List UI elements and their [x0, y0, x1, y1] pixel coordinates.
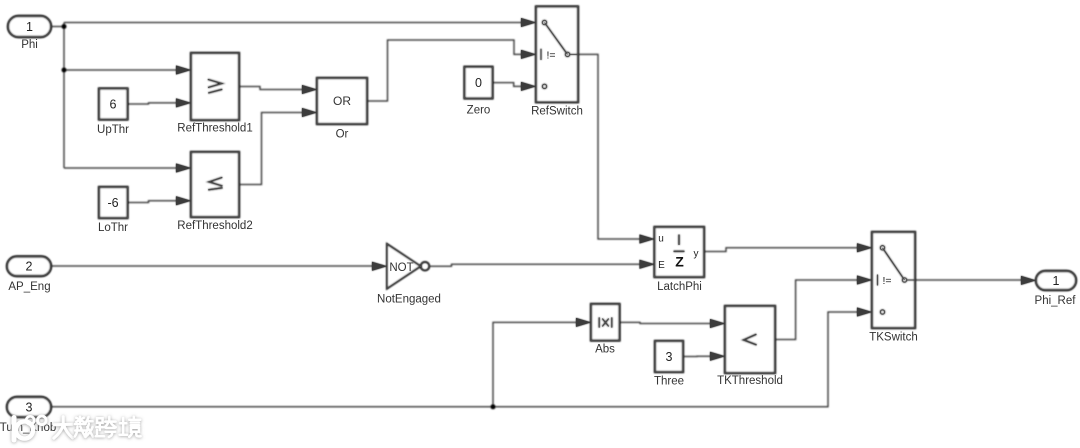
symbol abs bars (overlay): [599, 317, 612, 327]
arrowhead TKThreshold in1 (overlay): [710, 319, 725, 328]
symbol LE RefThreshold2: [208, 177, 222, 189]
block Zero (overlay): [465, 67, 493, 99]
arrowhead TKSwitch in3 (overlay): [857, 308, 872, 317]
svg-text:Abs: Abs: [595, 344, 615, 356]
TKSwitch port1 circle: [880, 246, 884, 250]
TKSwitch port3 circle (overlay): [880, 310, 884, 314]
arrowhead TKSwitch in2: [857, 276, 872, 285]
svg-text:Or: Or: [336, 129, 349, 141]
TKSwitch out circle: [902, 278, 906, 282]
svg-text:0: 0: [475, 76, 482, 90]
arrowhead TKThreshold in2: [710, 352, 725, 361]
TKSwitch port1 circle (overlay): [880, 246, 884, 250]
RefSwitch port3 circle (overlay): [542, 84, 546, 88]
svg-text:OR: OR: [333, 94, 351, 108]
arrowhead RefThreshold1 in1 (overlay): [176, 66, 191, 75]
wire branch to Abs: [493, 322, 577, 406]
svg-text:1: 1: [1053, 274, 1060, 288]
symbol LT TKThreshold: [744, 334, 757, 345]
port Phi_Ref (overlay): [1036, 271, 1076, 290]
arrowhead RefSwitch in3 (overlay): [521, 82, 536, 91]
block RefSwitch: [536, 7, 578, 103]
symbol LT TKThreshold (overlay): [744, 334, 757, 345]
svg-text:!=: !=: [547, 50, 556, 62]
wire Phi to RefSwitch in1: [64, 22, 522, 24]
wire Abs to TKThreshold in1: [620, 322, 712, 323]
wire NotEngaged to LatchPhi E: [429, 264, 640, 266]
block RefThreshold1: [191, 53, 239, 120]
arrowhead Abs in: [576, 318, 591, 327]
svg-text:u: u: [658, 234, 664, 245]
wire RefThreshold1 to Or in1: [239, 87, 303, 90]
svg-text:LatchPhi: LatchPhi: [657, 281, 702, 293]
port Turn_Knob (overlay): [7, 397, 51, 417]
RefSwitch out circle: [565, 52, 569, 56]
TKSwitch bar: [877, 275, 879, 286]
wire TKSwitch to Phi_Ref: [915, 279, 1022, 281]
symbol one over z (overlay): [674, 235, 685, 252]
arrowhead RefThreshold1 in2 (overlay): [176, 98, 191, 107]
svg-text:y: y: [694, 249, 699, 260]
watermark char Da: [54, 417, 73, 438]
RefSwitch port3 circle: [542, 84, 546, 88]
port Phi (overlay): [8, 16, 51, 37]
arrowhead Or in1 (overlay): [302, 85, 317, 94]
arrowhead TKSwitch in1 (overlay): [857, 243, 872, 252]
TKSwitch bar (overlay): [877, 275, 879, 286]
wire UpThr to RefThreshold1 in2: [128, 103, 178, 104]
block Three (overlay): [655, 341, 683, 372]
arrowhead RefSwitch in2 (overlay): [521, 50, 536, 59]
wire LoThr to RefThreshold2 in2: [128, 201, 178, 203]
svg-text:AP_Eng: AP_Eng: [8, 281, 50, 293]
block RefThreshold2 (overlay): [191, 152, 239, 217]
TKSwitch out circle (overlay): [902, 278, 906, 282]
svg-text:-6: -6: [107, 196, 118, 210]
block LatchPhi (overlay): [655, 227, 705, 277]
arrowhead LatchPhi E (overlay): [640, 260, 655, 269]
wire Zero to RefSwitch in3: [493, 83, 523, 87]
block Abs (overlay): [591, 304, 620, 341]
svg-text:NOT: NOT: [389, 262, 413, 274]
wire Turn_Knob to TKSwitch in3: [51, 312, 858, 407]
watermark char Shu: [75, 417, 93, 437]
port Phi: [8, 16, 51, 37]
arrowhead TKSwitch in3: [857, 308, 872, 317]
block LatchPhi: [655, 227, 705, 277]
arrowhead TKThreshold in1: [710, 319, 725, 328]
arrowhead LatchPhi E: [640, 260, 655, 269]
wire junction vertical: [63, 23, 65, 169]
gate NotEngaged triangle (overlay): [387, 244, 421, 289]
wire Or to RefSwitch in2: [367, 40, 522, 101]
port Turn_Knob: [7, 397, 51, 417]
svg-text:1: 1: [26, 20, 33, 34]
arrowhead Or in2: [302, 108, 317, 117]
block TKSwitch (overlay): [872, 232, 915, 328]
wire Three to TKThreshold in2: [683, 355, 711, 357]
TKSwitch out stub: [907, 279, 915, 281]
svg-text:RefSwitch: RefSwitch: [531, 106, 583, 118]
arrowhead Or in1: [302, 85, 317, 94]
arrowhead RefThreshold2 in1: [176, 164, 191, 173]
block UpThr (overlay): [99, 89, 128, 120]
arrowhead RefThreshold2 in2 (overlay): [176, 196, 191, 205]
gate NotEngaged bubble: [421, 262, 430, 271]
RefSwitch port1 circle: [542, 20, 546, 24]
watermark char Kua: [96, 417, 116, 437]
port AP_Eng (overlay): [7, 257, 51, 277]
symbol LE RefThreshold2 (overlay): [208, 177, 222, 189]
arrowhead LatchPhi u: [640, 235, 655, 244]
block Abs: [591, 304, 620, 341]
block Zero: [465, 67, 493, 99]
TKSwitch port3 circle: [880, 310, 884, 314]
arrowhead Abs in (overlay): [576, 318, 591, 327]
RefSwitch bar: [540, 49, 542, 60]
port Phi_Ref: [1036, 271, 1076, 290]
arrowhead RefThreshold2 in2: [176, 196, 191, 205]
block TKSwitch: [872, 232, 915, 328]
gate NotEngaged bubble (overlay): [421, 262, 430, 271]
arrowhead Or in2 (overlay): [302, 108, 317, 117]
arrowhead Phi_Ref in: [1021, 276, 1036, 285]
arrowhead RefSwitch in2: [521, 50, 536, 59]
svg-text:NotEngaged: NotEngaged: [377, 294, 441, 306]
symbol GE RefThreshold1: [208, 79, 223, 93]
RefSwitch out circle (overlay): [565, 52, 569, 56]
gate NotEngaged triangle: [387, 244, 421, 289]
port AP_Eng: [7, 257, 51, 277]
RefSwitch port1 circle (overlay): [542, 20, 546, 24]
svg-text:3: 3: [26, 401, 33, 415]
symbol abs bars: [599, 317, 612, 327]
arrowhead TKSwitch in1: [857, 243, 872, 252]
block LoThr (overlay): [99, 187, 128, 218]
wire RefSwitch to LatchPhi u: [578, 54, 640, 239]
block Three: [655, 341, 683, 372]
symbol one over z: [674, 235, 685, 252]
wire Phi to RefThreshold1 in1: [64, 69, 177, 71]
svg-text:Z: Z: [675, 253, 684, 269]
RefSwitch diagonal: [545, 23, 568, 55]
arrowhead RefThreshold1 in2: [176, 98, 191, 107]
TKSwitch out stub (overlay): [907, 279, 915, 281]
RefSwitch out stub (overlay): [570, 53, 578, 55]
arrowhead RefSwitch in1 (overlay): [521, 18, 536, 27]
block Or (overlay): [317, 78, 367, 124]
svg-text:Three: Three: [654, 376, 684, 388]
arrowhead RefThreshold2 in1 (overlay): [176, 164, 191, 173]
svg-text:RefThreshold1: RefThreshold1: [177, 123, 252, 135]
wire Phi to RefThreshold2 in1: [64, 167, 177, 169]
wire TKThreshold to TKSwitch in2: [775, 280, 858, 340]
svg-text:TKSwitch: TKSwitch: [869, 332, 918, 344]
arrowhead LatchPhi u (overlay): [640, 235, 655, 244]
svg-text:Zero: Zero: [467, 105, 491, 117]
watermark logo 100: [14, 416, 46, 440]
arrowhead NotEngaged in: [372, 262, 387, 271]
node junction B: [62, 68, 67, 73]
svg-text:!=: !=: [883, 275, 892, 287]
svg-text:3: 3: [666, 350, 673, 364]
svg-text:E: E: [658, 260, 665, 271]
svg-text:TKThreshold: TKThreshold: [717, 375, 783, 387]
svg-text:Phi: Phi: [21, 39, 38, 51]
block TKThreshold: [725, 306, 775, 373]
block RefThreshold1 (overlay): [191, 53, 239, 120]
wire RefThreshold2 to Or in2: [239, 113, 303, 185]
block Or: [317, 78, 367, 124]
watermark char Jing: [120, 417, 141, 437]
arrowhead Phi_Ref in (overlay): [1021, 276, 1036, 285]
svg-text:2: 2: [26, 260, 33, 274]
RefSwitch diagonal (overlay): [545, 23, 568, 55]
RefSwitch bar (overlay): [540, 49, 542, 60]
wire Phi to junction A: [51, 26, 64, 28]
arrowhead RefSwitch in1: [521, 18, 536, 27]
arrowhead TKSwitch in2 (overlay): [857, 276, 872, 285]
svg-text:Phi_Ref: Phi_Ref: [1035, 295, 1077, 307]
arrowhead RefSwitch in3: [521, 82, 536, 91]
node junction A: [62, 24, 67, 29]
RefSwitch out stub: [570, 53, 578, 55]
block RefSwitch (overlay): [536, 7, 578, 103]
block LoThr: [99, 187, 128, 218]
arrowhead TKThreshold in2 (overlay): [710, 352, 725, 361]
symbol GE RefThreshold1 (overlay): [208, 79, 223, 93]
svg-text:RefThreshold2: RefThreshold2: [177, 220, 252, 232]
arrowhead RefThreshold1 in1: [176, 66, 191, 75]
TKSwitch diagonal: [883, 248, 905, 280]
node junction C: [491, 404, 496, 409]
wire AP_Eng to NotEngaged: [51, 265, 373, 267]
block TKThreshold (overlay): [725, 306, 775, 373]
svg-text:LoThr: LoThr: [98, 222, 128, 234]
block UpThr: [99, 89, 128, 120]
arrowhead NotEngaged in (overlay): [372, 262, 387, 271]
svg-text:UpThr: UpThr: [97, 124, 129, 136]
TKSwitch diagonal (overlay): [883, 248, 905, 280]
wire LatchPhi to TKSwitch in1: [704, 248, 858, 252]
svg-text:6: 6: [110, 98, 117, 112]
block RefThreshold2: [191, 152, 239, 217]
